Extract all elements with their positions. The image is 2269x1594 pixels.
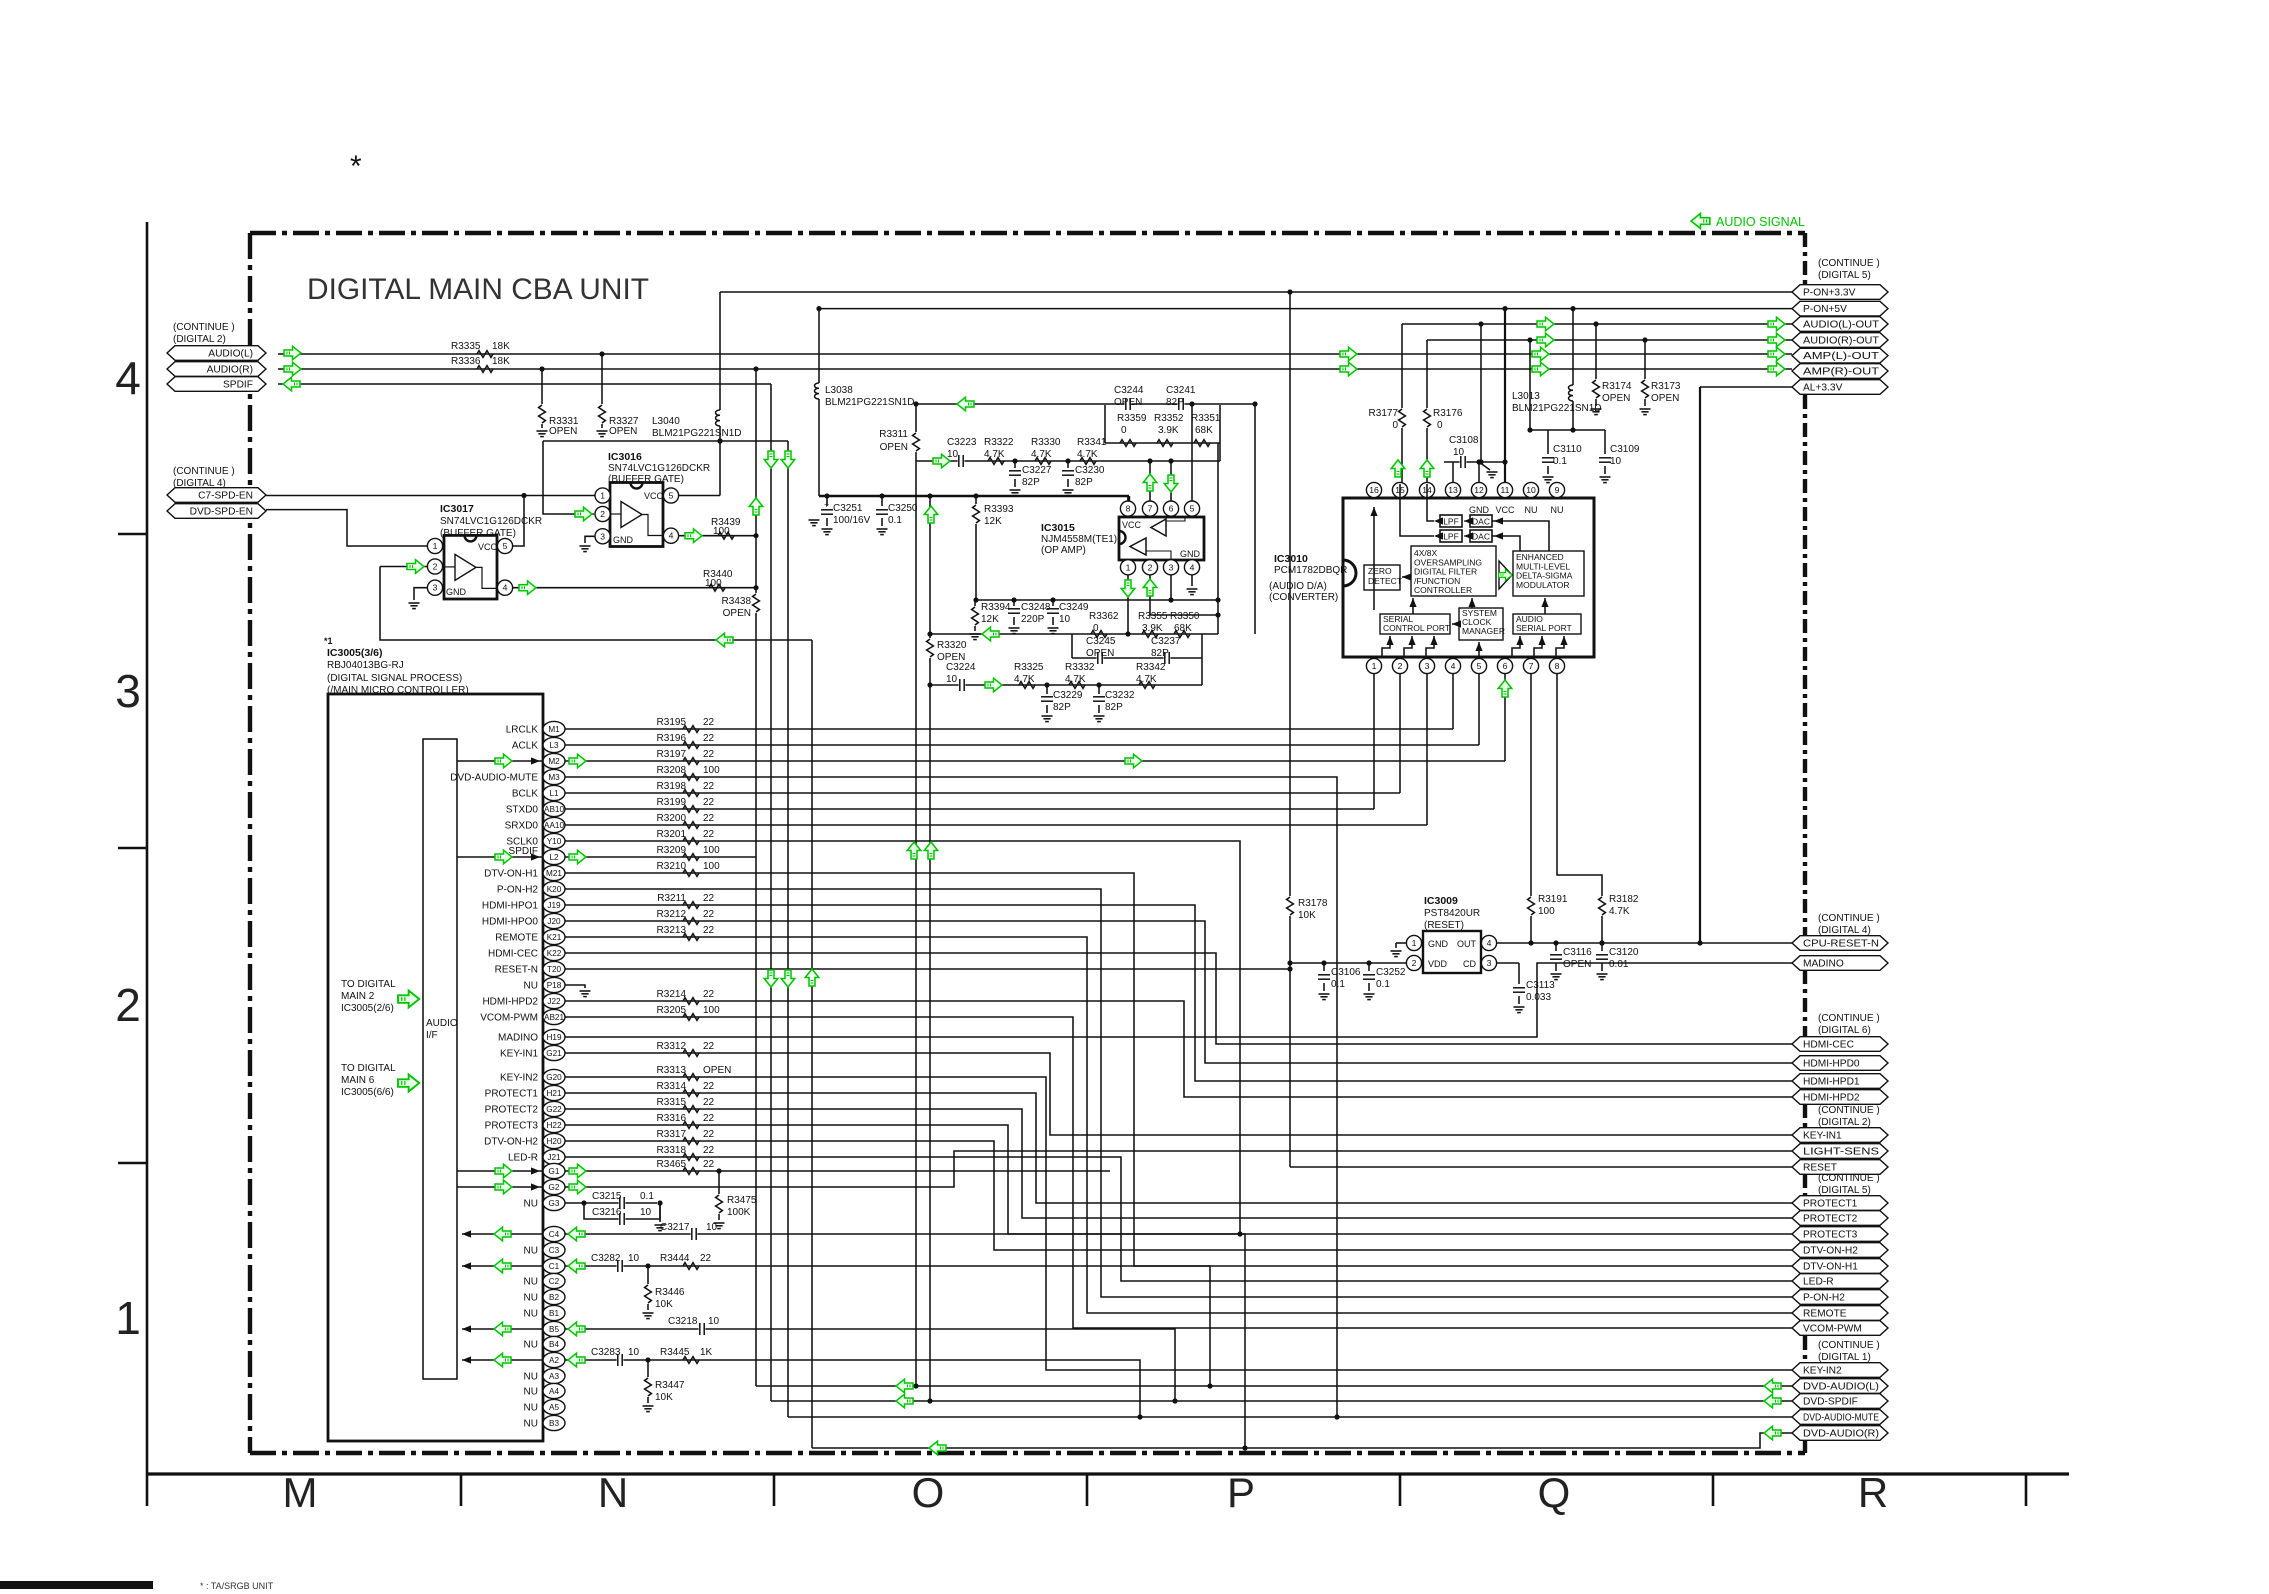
svg-text:NU: NU [524,1309,538,1320]
svg-text:DVD-AUDIO(L): DVD-AUDIO(L) [1803,1382,1879,1393]
svg-text:TO DIGITAL: TO DIGITAL [341,979,396,990]
svg-text:(BUFFER GATE): (BUFFER GATE) [440,528,516,539]
svg-text:R: R [1858,1469,1888,1516]
svg-text:22: 22 [703,829,715,840]
svg-text:R3195: R3195 [657,717,687,728]
svg-text:KEY-IN2: KEY-IN2 [1803,1366,1842,1377]
svg-text:IC3016: IC3016 [608,451,642,463]
svg-text:4: 4 [1451,661,1456,671]
svg-text:22: 22 [700,1253,712,1264]
svg-text:10: 10 [1610,456,1622,467]
svg-text:DVD-AUDIO(R): DVD-AUDIO(R) [1803,1429,1879,1440]
svg-text:100K: 100K [727,1207,751,1218]
svg-text:HDMI-HPD0: HDMI-HPD0 [1803,1059,1860,1070]
svg-text:DAC: DAC [1472,532,1490,542]
svg-text:RESET-N: RESET-N [495,965,538,976]
svg-text:J21: J21 [547,1153,561,1162]
svg-text:NU: NU [1525,505,1538,515]
svg-text:OPEN: OPEN [1602,393,1630,404]
svg-text:A3: A3 [549,1372,559,1381]
svg-text:HDMI-CEC: HDMI-CEC [1803,1040,1854,1051]
svg-text:2: 2 [115,979,141,1031]
svg-text:22: 22 [703,1081,715,1092]
svg-text:A4: A4 [549,1387,559,1396]
svg-text:P-ON-H2: P-ON-H2 [1803,1293,1845,1304]
svg-text:C3120: C3120 [1609,947,1639,958]
svg-text:10: 10 [1526,485,1536,495]
svg-text:DVD-SPD-EN: DVD-SPD-EN [190,507,253,518]
svg-text:0.1: 0.1 [888,515,902,526]
svg-text:OPEN: OPEN [549,426,577,437]
svg-text:CD: CD [1463,959,1476,969]
svg-text:22: 22 [703,893,715,904]
svg-text:R3199: R3199 [657,797,687,808]
svg-text:R3311: R3311 [879,429,908,440]
svg-text:10K: 10K [1298,910,1316,921]
svg-text:100: 100 [703,1005,720,1016]
svg-text:R3210: R3210 [657,861,687,872]
svg-text:82P: 82P [1151,648,1169,659]
svg-text:22: 22 [703,797,715,808]
svg-text:4: 4 [1487,938,1492,948]
svg-text:22: 22 [703,1113,715,1124]
svg-text:68K: 68K [1174,623,1192,634]
svg-text:R3320: R3320 [937,640,967,651]
svg-text:HDMI-HPO1: HDMI-HPO1 [482,901,539,912]
svg-text:4.7K: 4.7K [984,449,1005,460]
svg-text:IC3010: IC3010 [1274,553,1308,565]
svg-text:0.01: 0.01 [1609,959,1629,970]
svg-text:(CONTINUE ): (CONTINUE ) [1818,258,1880,269]
svg-text:IC3015: IC3015 [1041,522,1075,534]
svg-text:HDMI-HPO0: HDMI-HPO0 [482,917,539,928]
svg-text:R3211: R3211 [657,893,686,904]
svg-text:R3212: R3212 [657,909,687,920]
svg-text:G21: G21 [546,1049,562,1058]
svg-text:B5: B5 [549,1325,559,1334]
svg-text:DVD-AUDIO-MUTE: DVD-AUDIO-MUTE [450,773,538,784]
svg-text:C3116: C3116 [1563,947,1592,958]
svg-text:R3214: R3214 [657,989,687,1000]
svg-text:VDD: VDD [1428,959,1448,969]
svg-text:IC3005(2/6): IC3005(2/6) [341,1003,394,1014]
svg-text:OPEN: OPEN [1563,959,1591,970]
svg-text:2: 2 [433,562,438,572]
svg-text:22: 22 [703,1159,715,1170]
svg-text:AL+3.3V: AL+3.3V [1803,383,1843,394]
svg-text:4: 4 [115,352,141,404]
svg-text:12: 12 [1474,485,1484,495]
svg-text:BCLK: BCLK [512,789,538,800]
svg-text:STXD0: STXD0 [506,805,539,816]
svg-text:LED-R: LED-R [508,1153,538,1164]
svg-text:C3249: C3249 [1059,602,1089,613]
svg-text:KEY-IN1: KEY-IN1 [500,1049,538,1060]
svg-text:M3: M3 [548,773,560,782]
svg-text:5: 5 [669,491,674,501]
svg-text:3.9K: 3.9K [1158,425,1179,436]
svg-text:DETECT: DETECT [1368,576,1402,586]
svg-text:3: 3 [1487,958,1492,968]
svg-text:SERIAL PORT: SERIAL PORT [1516,623,1572,633]
svg-text:22: 22 [703,749,715,760]
svg-text:8: 8 [1555,661,1560,671]
svg-text:0.1: 0.1 [1376,979,1390,990]
svg-text:10: 10 [1059,614,1071,625]
svg-text:(CONTINUE ): (CONTINUE ) [173,322,235,333]
svg-text:R3316: R3316 [657,1113,687,1124]
svg-text:I/F: I/F [426,1030,438,1041]
svg-text:R3200: R3200 [657,813,687,824]
svg-text:RESET: RESET [1803,1163,1837,1174]
svg-text:22: 22 [703,989,715,1000]
svg-text:BLM21PG221SN1D: BLM21PG221SN1D [1512,403,1602,414]
svg-text:SRXD0: SRXD0 [505,821,539,832]
svg-text:AUDIO(L): AUDIO(L) [208,349,253,360]
svg-text:SPDIF: SPDIF [509,846,538,857]
svg-text:Y10: Y10 [547,837,562,846]
svg-text:R3355: R3355 [1138,611,1168,622]
svg-text:OPEN: OPEN [1086,648,1114,659]
svg-text:12K: 12K [981,614,999,625]
svg-text:C1: C1 [549,1262,560,1271]
svg-text:P: P [1227,1469,1255,1516]
svg-text:ACLK: ACLK [512,741,538,752]
svg-text:C3230: C3230 [1075,465,1105,476]
svg-text:10: 10 [708,1316,720,1327]
svg-text:O: O [912,1469,945,1516]
svg-text:T20: T20 [547,965,562,974]
svg-text:(CONTINUE ): (CONTINUE ) [1818,1105,1880,1116]
svg-text:R3313: R3313 [657,1065,687,1076]
svg-text:R3330: R3330 [1031,437,1061,448]
svg-text:(RESET): (RESET) [1424,920,1464,931]
svg-text:C3283: C3283 [591,1347,621,1358]
svg-text:R3350: R3350 [1170,611,1200,622]
svg-text:C2: C2 [549,1277,560,1286]
svg-text:L1: L1 [549,789,559,798]
svg-text:C3216: C3216 [592,1207,622,1218]
svg-text:MANAGER: MANAGER [1462,626,1505,636]
svg-text:R3198: R3198 [657,781,687,792]
svg-text:22: 22 [703,813,715,824]
svg-text:4.7K: 4.7K [1136,674,1157,685]
svg-text:PROTECT2: PROTECT2 [485,1105,539,1116]
svg-text:K21: K21 [547,933,562,942]
svg-text:10: 10 [628,1347,640,1358]
svg-text:+: + [824,500,829,510]
svg-text:(BUFFER GATE): (BUFFER GATE) [608,474,684,485]
svg-text:(DIGITAL 4): (DIGITAL 4) [1818,925,1871,936]
svg-text:* : TA/SRGB UNIT: * : TA/SRGB UNIT [200,1581,274,1589]
svg-text:HDMI-HPD1: HDMI-HPD1 [1803,1077,1860,1088]
svg-text:18K: 18K [492,356,510,367]
svg-text:L3040: L3040 [652,416,680,427]
svg-text:GND: GND [1180,549,1201,559]
svg-text:13: 13 [1448,485,1458,495]
svg-text:0.1: 0.1 [1553,456,1567,467]
svg-text:M: M [283,1469,318,1516]
svg-text:22: 22 [703,1129,715,1140]
svg-text:100: 100 [1538,906,1555,917]
svg-text:P-ON+5V: P-ON+5V [1803,304,1847,315]
svg-text:82P: 82P [1022,477,1040,488]
svg-text:10: 10 [640,1207,652,1218]
svg-text:G3: G3 [549,1199,560,1208]
svg-text:IC3009: IC3009 [1424,895,1458,907]
svg-text:R3362: R3362 [1089,611,1119,622]
svg-text:10: 10 [1453,447,1465,458]
svg-text:18K: 18K [492,341,510,352]
svg-text:(CONTINUE ): (CONTINUE ) [1818,913,1880,924]
svg-text:MAIN 2: MAIN 2 [341,991,375,1002]
svg-text:(CONTINUE ): (CONTINUE ) [1818,1340,1880,1351]
svg-text:(CONTINUE ): (CONTINUE ) [1818,1013,1880,1024]
svg-text:(DIGITAL SIGNAL PROCESS): (DIGITAL SIGNAL PROCESS) [327,673,462,684]
svg-text:(DIGITAL 2): (DIGITAL 2) [1818,1117,1871,1128]
svg-text:4.7K: 4.7K [1031,449,1052,460]
svg-text:2: 2 [1412,958,1417,968]
svg-text:N: N [598,1469,628,1516]
svg-text:3: 3 [600,531,605,541]
svg-text:7: 7 [1148,504,1153,514]
svg-text:4: 4 [1190,562,1195,572]
svg-text:C3217: C3217 [660,1222,690,1233]
svg-text:AUDIO(R)-OUT: AUDIO(R)-OUT [1803,336,1879,347]
svg-text:SCLK0: SCLK0 [506,837,538,848]
svg-text:R3201: R3201 [657,829,687,840]
svg-text:LPF: LPF [1443,517,1459,527]
svg-text:NU: NU [524,1419,538,1430]
svg-text:A2: A2 [549,1356,559,1365]
svg-text:R3176: R3176 [1433,408,1463,419]
svg-text:22: 22 [703,1041,715,1052]
svg-text:R3341: R3341 [1077,437,1107,448]
svg-text:AUDIO(R): AUDIO(R) [207,365,253,376]
svg-text:R3393: R3393 [984,504,1014,515]
svg-text:R3208: R3208 [657,765,687,776]
svg-text:22: 22 [703,909,715,920]
svg-text:0: 0 [1392,420,1398,431]
svg-text:R3465: R3465 [657,1159,687,1170]
svg-text:B3: B3 [549,1419,559,1428]
svg-text:R3447: R3447 [655,1380,685,1391]
svg-text:R3445: R3445 [660,1347,690,1358]
svg-text:DAC: DAC [1472,517,1490,527]
svg-text:9: 9 [1555,485,1560,495]
svg-text:P18: P18 [547,981,562,990]
svg-text:R3196: R3196 [657,733,687,744]
svg-text:R3318: R3318 [657,1145,687,1156]
svg-text:R3438: R3438 [722,596,752,607]
svg-text:1: 1 [115,1292,141,1344]
svg-text:SN74LVC1G126DCKR: SN74LVC1G126DCKR [608,463,710,474]
svg-text:(DIGITAL 5): (DIGITAL 5) [1818,1185,1871,1196]
svg-text:(CONVERTER): (CONVERTER) [1269,592,1338,603]
svg-text:C3218: C3218 [668,1316,698,1327]
svg-text:C3248: C3248 [1021,602,1051,613]
svg-text:NU: NU [1551,505,1564,515]
svg-text:100: 100 [703,765,720,776]
svg-text:C3110: C3110 [1553,444,1582,455]
svg-text:B1: B1 [549,1309,559,1318]
svg-text:(DIGITAL 2): (DIGITAL 2) [173,334,226,345]
svg-text:0.1: 0.1 [1331,979,1345,990]
svg-text:MAIN 6: MAIN 6 [341,1075,375,1086]
svg-text:4.7K: 4.7K [1077,449,1098,460]
svg-text:(OP AMP): (OP AMP) [1041,545,1086,556]
svg-text:R3197: R3197 [657,749,687,760]
svg-text:MODULATOR: MODULATOR [1516,580,1570,590]
svg-text:NU: NU [524,981,538,992]
svg-text:C3113: C3113 [1526,980,1555,991]
svg-text:5: 5 [1190,504,1195,514]
svg-text:100: 100 [703,845,720,856]
svg-text:C3251: C3251 [833,503,863,514]
svg-text:22: 22 [703,1145,715,1156]
svg-text:NU: NU [524,1277,538,1288]
svg-text:2: 2 [1148,562,1153,572]
svg-text:(CONTINUE ): (CONTINUE ) [173,466,235,477]
svg-text:4.7K: 4.7K [1609,906,1630,917]
svg-text:AB10: AB10 [544,805,564,814]
svg-text:HDMI-HPD2: HDMI-HPD2 [1803,1093,1860,1104]
svg-text:H21: H21 [546,1089,561,1098]
svg-text:IC3005(3/6): IC3005(3/6) [327,647,382,659]
svg-text:C3244: C3244 [1114,385,1144,396]
svg-text:0.1: 0.1 [640,1191,654,1202]
svg-text:A5: A5 [549,1403,559,1412]
svg-text:IC3005(6/6): IC3005(6/6) [341,1087,394,1098]
svg-text:B2: B2 [549,1293,559,1302]
svg-text:C3108: C3108 [1449,435,1479,446]
svg-text:GND: GND [1428,939,1449,949]
svg-text:(/MAIN MICRO CONTROLLER): (/MAIN MICRO CONTROLLER) [327,685,469,696]
svg-text:C3223: C3223 [947,437,977,448]
svg-text:B4: B4 [549,1340,559,1349]
svg-text:DTV-ON-H2: DTV-ON-H2 [1803,1246,1858,1257]
svg-text:P-ON-H2: P-ON-H2 [497,885,539,896]
svg-text:R3209: R3209 [657,845,687,856]
svg-text:100/16V: 100/16V [833,515,871,526]
svg-text:NJM4558M(TE1): NJM4558M(TE1) [1041,534,1117,545]
svg-text:AUDIO: AUDIO [426,1018,458,1029]
svg-text:C3227: C3227 [1022,465,1052,476]
svg-text:C3241: C3241 [1166,385,1196,396]
svg-text:R3317: R3317 [657,1129,687,1140]
svg-text:NU: NU [524,1246,538,1257]
svg-text:J19: J19 [547,901,561,910]
svg-text:10: 10 [947,449,959,460]
svg-text:Q: Q [1538,1469,1571,1516]
svg-text:K22: K22 [547,949,562,958]
svg-text:NU: NU [524,1387,538,1398]
svg-text:2: 2 [1398,661,1403,671]
svg-text:PROTECT1: PROTECT1 [485,1089,539,1100]
svg-text:NU: NU [524,1340,538,1351]
svg-text:DVD-AUDIO-MUTE: DVD-AUDIO-MUTE [1803,1413,1879,1424]
svg-text:M1: M1 [548,725,560,734]
svg-text:16: 16 [1369,485,1379,495]
svg-text:R3359: R3359 [1117,413,1147,424]
svg-text:CPU-RESET-N: CPU-RESET-N [1803,939,1879,950]
svg-text:0.033: 0.033 [1526,992,1551,1003]
svg-text:G22: G22 [546,1105,562,1114]
svg-text:C3106: C3106 [1331,967,1361,978]
svg-text:68K: 68K [1195,425,1213,436]
svg-text:M2: M2 [548,757,560,766]
svg-text:L3013: L3013 [1512,391,1540,402]
svg-text:3: 3 [1169,562,1174,572]
svg-text:C4: C4 [549,1230,560,1239]
svg-text:ZERO: ZERO [1368,566,1392,576]
svg-text:M21: M21 [546,869,562,878]
svg-text:SPDIF: SPDIF [223,380,253,391]
svg-text:100: 100 [705,578,722,589]
svg-text:220P: 220P [1021,614,1045,625]
svg-text:6: 6 [1503,661,1508,671]
svg-text:R3394: R3394 [981,602,1011,613]
svg-text:R3177: R3177 [1369,408,1399,419]
svg-text:1: 1 [1412,938,1417,948]
svg-text:NU: NU [524,1372,538,1383]
svg-text:VCC: VCC [1495,505,1515,515]
svg-text:NU: NU [524,1293,538,1304]
svg-text:HDMI-CEC: HDMI-CEC [488,949,538,960]
svg-text:L3: L3 [549,741,559,750]
svg-text:22: 22 [703,1097,715,1108]
svg-text:C3252: C3252 [1376,967,1406,978]
svg-text:2: 2 [600,509,605,519]
svg-text:VCC: VCC [644,491,664,501]
svg-text:82P: 82P [1105,702,1123,713]
svg-text:J20: J20 [547,917,561,926]
svg-text:3: 3 [1425,661,1430,671]
svg-text:AB21: AB21 [544,1013,564,1022]
svg-text:G1: G1 [549,1167,560,1176]
svg-text:6: 6 [1169,504,1174,514]
svg-text:AUDIO(L)-OUT: AUDIO(L)-OUT [1803,320,1879,331]
svg-text:C3215: C3215 [592,1191,622,1202]
svg-text:DVD-SPDIF: DVD-SPDIF [1803,1397,1858,1408]
svg-text:C7-SPD-EN: C7-SPD-EN [198,491,253,502]
svg-text:R3475: R3475 [727,1195,757,1206]
svg-text:OPEN: OPEN [1651,393,1679,404]
svg-text:OUT: OUT [1457,939,1477,949]
svg-text:MADINO: MADINO [1803,959,1844,970]
svg-text:4: 4 [669,531,674,541]
svg-text:TO DIGITAL: TO DIGITAL [341,1063,396,1074]
svg-text:*1: *1 [324,636,333,646]
svg-text:AMP(L)-OUT: AMP(L)-OUT [1803,351,1879,362]
svg-text:22: 22 [703,717,715,728]
svg-text:11: 11 [1501,485,1510,495]
svg-text:OPEN: OPEN [880,442,908,453]
svg-text:PROTECT3: PROTECT3 [1803,1230,1858,1241]
svg-text:R3332: R3332 [1065,662,1095,673]
svg-text:DTV-ON-H1: DTV-ON-H1 [484,869,538,880]
svg-text:4.7K: 4.7K [1065,674,1086,685]
svg-text:R3351: R3351 [1191,413,1221,424]
svg-text:G2: G2 [549,1183,560,1192]
svg-text:PROTECT3: PROTECT3 [485,1121,539,1132]
svg-text:VCOM-PWM: VCOM-PWM [1803,1324,1862,1335]
svg-text:R3322: R3322 [984,437,1014,448]
svg-text:R3205: R3205 [657,1005,687,1016]
svg-text:PROTECT1: PROTECT1 [1803,1199,1858,1210]
svg-text:4: 4 [503,583,508,593]
svg-text:VCC: VCC [478,542,498,552]
